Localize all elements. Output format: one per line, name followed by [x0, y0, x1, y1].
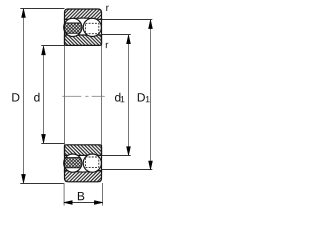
d1 dimension line [128, 35, 130, 155]
inner ring bottom section [65, 145, 102, 156]
B dimension line [64, 202, 102, 204]
hidden cage in top-right ball (dashed) [85, 23, 98, 33]
d1 arrow up [127, 35, 131, 44]
ball bottom-right [83, 154, 101, 172]
left face line bottom section [64, 145, 66, 173]
B extension line right [102, 183, 104, 206]
B arrow right [94, 201, 103, 205]
d arrow down [42, 134, 46, 143]
inner ring top section [65, 35, 102, 45]
right face line bottom section [101, 145, 103, 173]
left face line top section [64, 19, 66, 46]
D1 arrow down [149, 161, 153, 170]
ball top-left [64, 18, 82, 36]
D dimension line [23, 9, 25, 182]
label d [34, 93, 39, 102]
label D [12, 93, 19, 101]
cage section in bottom-left ball (cross-hatched) [62, 158, 84, 168]
D1 dimension line [150, 20, 152, 169]
cage section in top-left ball (cross-hatched) [62, 23, 84, 33]
label r top [106, 6, 109, 11]
d extension line bottom [41, 143, 64, 145]
axis centerline [62, 95, 105, 97]
D1 extension line top [102, 19, 153, 21]
d arrow up [42, 46, 46, 55]
d dimension line [43, 46, 45, 143]
D extension line top [20, 8, 64, 10]
D extension line bottom [20, 183, 64, 185]
d1 extension line bottom [102, 155, 131, 157]
D arrow down [22, 174, 26, 183]
ball top-right [83, 18, 101, 36]
D1 extension line bottom [102, 169, 153, 171]
B arrow left [64, 201, 72, 205]
D1 arrow up [149, 20, 153, 29]
label D1 [138, 93, 145, 101]
B extension line left [63, 183, 65, 206]
hidden cage in bottom-right ball (dashed) [85, 157, 98, 167]
label B [78, 192, 84, 200]
right face line top section [101, 19, 103, 46]
label r lower [106, 43, 109, 48]
outer ring bottom section [65, 170, 102, 181]
label d1 [115, 93, 120, 102]
outer ring top section [65, 9, 102, 20]
d1 arrow down [127, 147, 131, 156]
d1 extension line top [102, 34, 131, 36]
wire: right face edge through bore [101, 45, 103, 144]
ball bottom-left [64, 154, 82, 172]
wire: left face edge through bore [64, 45, 66, 144]
d extension line top [41, 45, 64, 47]
D arrow up [22, 9, 26, 18]
